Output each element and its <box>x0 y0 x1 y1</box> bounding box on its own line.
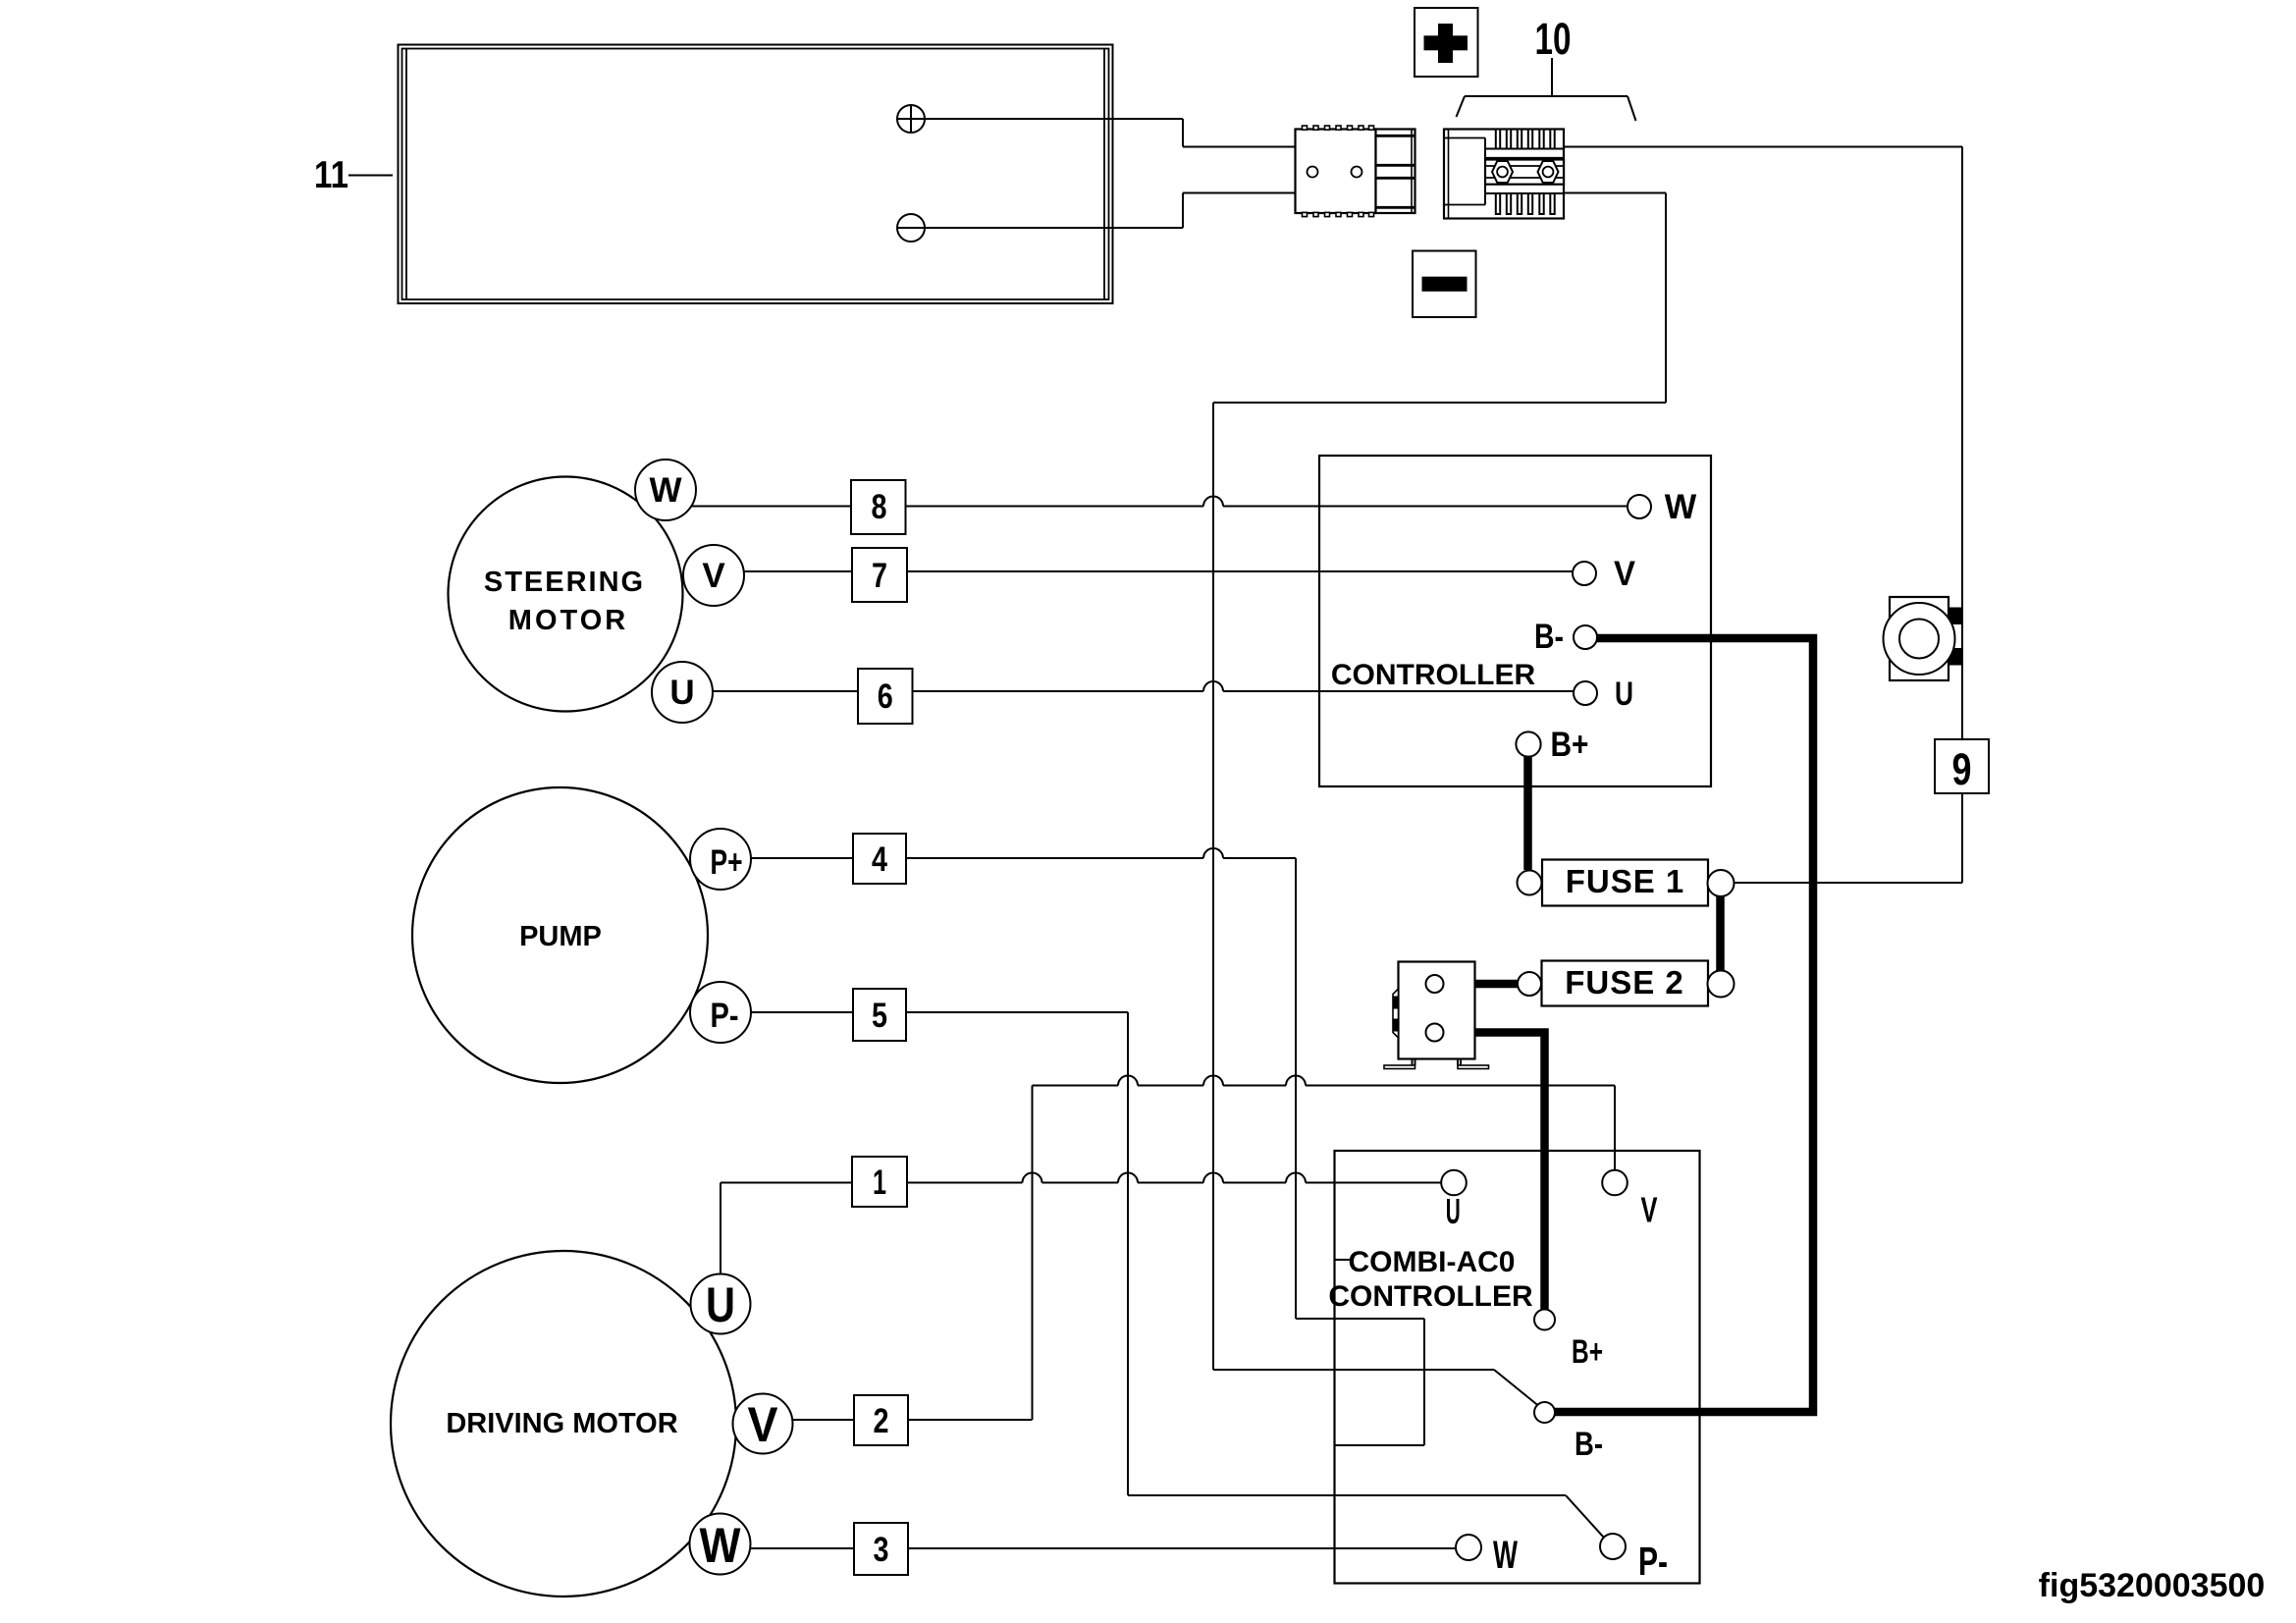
svg-text:V: V <box>702 557 725 595</box>
fuse 2 <box>1542 961 1709 1006</box>
combi controller box <box>1335 1151 1700 1584</box>
plus symbol box <box>1415 8 1478 77</box>
svg-text:3: 3 <box>874 1531 889 1569</box>
svg-text:V: V <box>748 1397 779 1452</box>
svg-text:B-: B- <box>1534 618 1564 656</box>
thick wire controller B+ to fuse1 <box>1523 756 1532 870</box>
fuse2 right terminal <box>1708 971 1735 998</box>
svg-text:P+: P+ <box>711 843 743 882</box>
svg-text:P-: P- <box>711 997 739 1035</box>
wire driving W to 3 <box>750 1547 854 1549</box>
svg-text:7: 7 <box>872 557 887 595</box>
wire 2 to combi V <box>908 1076 1615 1421</box>
pump motor <box>412 787 708 1083</box>
combi terminal W <box>1456 1534 1518 1577</box>
svg-text:8: 8 <box>872 488 887 526</box>
controller terminal V <box>1573 555 1636 593</box>
svg-text:10: 10 <box>1535 14 1572 64</box>
battery-side connector plug <box>1296 126 1415 217</box>
svg-text:B+: B+ <box>1551 726 1589 764</box>
combi terminal P- <box>1600 1534 1668 1584</box>
svg-text:U: U <box>706 1277 735 1332</box>
label 10 <box>1535 14 1572 64</box>
svg-text:U: U <box>669 674 694 712</box>
thick wire controller B- to combi B- <box>1554 638 1813 1412</box>
pump terminal P+ <box>690 829 751 890</box>
svg-text:FUSE 2: FUSE 2 <box>1565 964 1684 1001</box>
svg-text:U: U <box>1615 676 1633 713</box>
controller label <box>1331 659 1536 691</box>
fuse2 left terminal <box>1518 972 1541 996</box>
combi label tick <box>1336 1259 1352 1261</box>
svg-text:CONTROLLER: CONTROLLER <box>1331 659 1536 691</box>
fuse 1 <box>1542 860 1708 906</box>
wire battery plus to connector <box>897 119 1296 147</box>
thick wire contactor to fuse2 <box>1443 980 1518 989</box>
wire 3 to combi W <box>908 1547 1456 1549</box>
thick wire fuse1 to fuse2 <box>1716 893 1725 972</box>
svg-text:FUSE 1: FUSE 1 <box>1566 863 1685 899</box>
wire box 4 <box>853 834 906 884</box>
wire steering V to 7 <box>743 570 852 572</box>
wire box 2 <box>854 1395 908 1445</box>
svg-text:V: V <box>1641 1190 1658 1230</box>
pump terminal P- <box>690 982 751 1043</box>
wire driving U to 1 <box>721 1183 852 1274</box>
driving terminal W <box>690 1514 751 1575</box>
figure number <box>2039 1567 2266 1604</box>
thick wire contactor to combi B+ <box>1443 1033 1545 1311</box>
wire box 3 <box>854 1523 908 1575</box>
svg-text:P-: P- <box>1638 1539 1668 1584</box>
wire steering W to 8 <box>691 506 851 508</box>
driving motor <box>391 1251 736 1596</box>
combi terminal B+ <box>1534 1310 1603 1372</box>
combi terminal V <box>1602 1170 1657 1230</box>
truck-side connector socket 10 <box>1444 130 1564 219</box>
svg-text:COMBI-AC0: COMBI-AC0 <box>1349 1246 1516 1278</box>
wire box 1 <box>852 1157 907 1207</box>
wire box 6 <box>858 669 913 724</box>
key switch 9 <box>1884 597 1963 680</box>
callout bracket for 10 <box>1457 58 1636 121</box>
wire 1 to combi U <box>907 1173 1444 1183</box>
svg-text:B+: B+ <box>1572 1333 1603 1371</box>
wire 4 to v4 bus <box>906 848 1424 1445</box>
wire box 5 <box>853 989 906 1041</box>
wire connector to key switch bus <box>1564 147 1962 884</box>
controller terminal U <box>1574 676 1633 713</box>
label 9 box <box>1935 739 1989 794</box>
steering motor <box>449 477 683 712</box>
wire 6 to controller U <box>913 681 1574 691</box>
battery positive terminal <box>897 105 925 133</box>
minus symbol box <box>1413 251 1476 318</box>
steering terminal W <box>635 460 696 520</box>
steering terminal U <box>652 662 713 723</box>
wire 8 to controller W <box>906 497 1628 507</box>
battery negative terminal <box>897 214 925 242</box>
wire box 7 <box>852 548 907 602</box>
wire box 8 <box>851 480 906 534</box>
wire driving V to 2 <box>792 1419 854 1421</box>
svg-text:4: 4 <box>872 840 887 879</box>
controller terminal B+ <box>1516 726 1588 764</box>
wire pump P- to 5 <box>750 1011 853 1013</box>
wire 7 to controller V <box>907 570 1574 572</box>
svg-text:PUMP: PUMP <box>519 921 602 952</box>
wire pump P+ to 4 <box>750 857 853 859</box>
combi label <box>1328 1246 1533 1313</box>
svg-text:STEERING: STEERING <box>484 567 645 598</box>
svg-text:CONTROLLER: CONTROLLER <box>1328 1280 1533 1313</box>
fuse1 left terminal <box>1518 871 1542 895</box>
svg-text:U: U <box>1446 1191 1461 1231</box>
controller terminal W <box>1628 488 1696 526</box>
svg-text:DRIVING MOTOR: DRIVING MOTOR <box>446 1408 677 1439</box>
svg-text:5: 5 <box>872 997 887 1035</box>
svg-text:W: W <box>700 1518 742 1573</box>
controller terminal B- <box>1534 618 1597 656</box>
svg-text:2: 2 <box>874 1402 889 1440</box>
wire 5 to combi P- <box>906 1012 1604 1538</box>
svg-text:fig5320003500: fig5320003500 <box>2039 1567 2266 1604</box>
svg-text:6: 6 <box>878 677 893 716</box>
svg-text:MOTOR: MOTOR <box>508 605 628 636</box>
wire steering U to 6 <box>713 690 858 692</box>
combi terminal B- <box>1534 1402 1603 1463</box>
svg-text:W: W <box>649 471 681 510</box>
fuse1 right terminal <box>1708 870 1735 896</box>
contactor <box>1393 962 1475 1059</box>
controller box <box>1319 456 1711 786</box>
combi terminal U <box>1441 1170 1467 1231</box>
svg-text:V: V <box>1614 555 1636 593</box>
label 11 <box>314 154 348 196</box>
svg-text:9: 9 <box>1952 744 1972 794</box>
wire battery minus to connector <box>897 193 1296 229</box>
contactor left foot <box>1384 1059 1415 1069</box>
battery case 11 <box>399 45 1113 304</box>
wire fuse1 to bus <box>1735 882 1963 884</box>
wire battery-minus bus to combi B- <box>1213 403 1538 1406</box>
driving terminal V <box>733 1394 793 1454</box>
leader line for 11 <box>348 175 393 177</box>
svg-text:11: 11 <box>314 154 348 196</box>
svg-text:W: W <box>1665 488 1697 526</box>
steering terminal V <box>683 545 744 606</box>
svg-text:B-: B- <box>1575 1426 1603 1463</box>
contactor right foot <box>1458 1059 1489 1069</box>
svg-text:1: 1 <box>873 1163 886 1202</box>
svg-text:W: W <box>1493 1534 1518 1577</box>
wire connector minus down-left <box>1213 193 1666 404</box>
driving terminal U <box>691 1274 751 1334</box>
